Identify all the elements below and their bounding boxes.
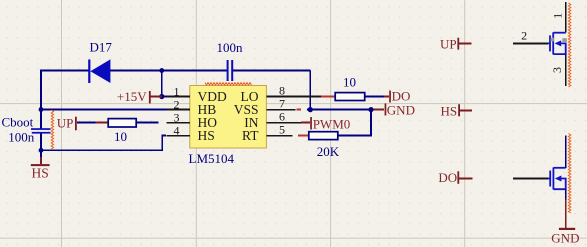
capacitor 100n (top) <box>217 40 244 81</box>
svg-text:6: 6 <box>279 109 285 123</box>
svg-text:Cboot: Cboot <box>2 115 34 130</box>
wire HB row <box>41 109 167 111</box>
port GND (mid) <box>385 103 415 118</box>
wire RT red segment <box>298 135 309 137</box>
svg-text:GND: GND <box>551 230 579 245</box>
svg-text:+15V: +15V <box>117 89 147 104</box>
wire top rail seg3 <box>233 70 310 72</box>
diode D17 <box>88 40 112 83</box>
power port +15V <box>117 89 162 104</box>
wire left rail upper <box>40 70 42 129</box>
ERC zigzag left <box>51 110 53 149</box>
wire LO resistor to DO port <box>365 96 384 98</box>
svg-text:DO: DO <box>392 89 411 104</box>
svg-text:100n: 100n <box>217 40 244 55</box>
svg-text:PWM0: PWM0 <box>313 116 351 131</box>
svg-text:100n: 100n <box>8 129 35 144</box>
resistor R 10 (UP to HO) <box>77 119 136 144</box>
svg-text:1: 1 <box>174 84 180 98</box>
Q top gray designator marks <box>551 38 554 42</box>
IC U? LM5104 body <box>189 86 267 166</box>
ERC zigzag IC top <box>205 83 252 85</box>
wire top rail seg1 <box>40 70 89 72</box>
svg-text:RT: RT <box>242 128 259 143</box>
IC pins <box>167 97 322 136</box>
wire VSS node to GND branch <box>307 109 372 111</box>
svg-text:UP: UP <box>57 116 74 131</box>
wire top rail seg2 <box>110 70 227 72</box>
svg-text:10: 10 <box>343 74 356 89</box>
port PWM0 <box>310 116 350 131</box>
wire LO row <box>290 96 321 98</box>
resistor R 10 (LO to DO) <box>335 74 365 100</box>
wire vertical to VDD pin1 <box>161 71 163 97</box>
wire VDD stub <box>162 96 167 98</box>
wire LO red segment <box>321 96 336 98</box>
ERC zigzag top right <box>568 3 570 87</box>
svg-text:8: 8 <box>279 83 285 97</box>
wire HS row elbow <box>41 136 166 151</box>
wire 20K vertical to VSS node <box>370 110 372 137</box>
svg-text:5: 5 <box>279 122 285 136</box>
svg-text:D17: D17 <box>90 40 113 55</box>
svg-text:2: 2 <box>521 29 527 43</box>
svg-text:UP: UP <box>440 36 457 51</box>
wire GND port lead <box>372 109 384 111</box>
svg-text:DO: DO <box>438 170 457 185</box>
capacitor Cboot <box>2 115 51 145</box>
svg-text:1: 1 <box>551 13 565 19</box>
transistor Q bottom (gate from DO) <box>548 168 566 190</box>
port HS (bottom left) <box>31 157 50 181</box>
wire RT resistor to 20K vertical <box>338 135 371 137</box>
svg-text:LM5104: LM5104 <box>189 151 235 166</box>
wire left rail lower <box>40 133 42 160</box>
port DO (right) <box>438 170 472 185</box>
svg-text:20K: 20K <box>317 144 340 159</box>
transistor Q top (gate from UP) <box>548 32 566 54</box>
wire IN maroon lead <box>301 122 310 124</box>
svg-text:GND: GND <box>387 103 415 118</box>
svg-text:3: 3 <box>174 110 180 124</box>
port UP (left) <box>57 116 77 131</box>
Q bottom pin wires <box>513 135 566 199</box>
power port GND (bottom) <box>551 200 579 246</box>
svg-text:4: 4 <box>174 123 180 137</box>
svg-text:HS: HS <box>441 103 458 118</box>
svg-text:2: 2 <box>174 97 180 111</box>
wire HO row resistor to gap <box>137 122 159 124</box>
port UP (right) <box>440 36 472 51</box>
wire VSS red dash <box>296 109 301 111</box>
resistor 20K <box>309 132 340 159</box>
svg-text:3: 3 <box>550 67 564 73</box>
pin numbers <box>174 83 286 137</box>
Q top pin wires <box>513 2 566 86</box>
svg-text:7: 7 <box>279 96 285 110</box>
port HS (right) <box>441 103 473 118</box>
port DO (mid) <box>389 89 410 104</box>
wire vertical cap to VSS node <box>309 71 311 110</box>
ERC zigzag bottom right <box>568 134 570 214</box>
svg-text:10: 10 <box>114 129 127 144</box>
svg-text:HS: HS <box>32 166 49 181</box>
junction node dots <box>39 68 374 153</box>
svg-text:HS: HS <box>198 128 215 143</box>
